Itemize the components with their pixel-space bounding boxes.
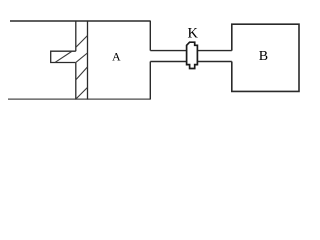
hatch line 3 bbox=[76, 53, 87, 62]
hatch line 5 bbox=[76, 88, 87, 99]
reservoir B box bbox=[232, 24, 299, 91]
hatch line 4 bbox=[76, 67, 88, 80]
hatch line 1 bbox=[76, 36, 88, 48]
svg-text:K: K bbox=[187, 26, 198, 42]
cylinder bottom wall bbox=[8, 98, 150, 100]
svg-text:A: A bbox=[112, 50, 121, 64]
duct top line bbox=[150, 50, 232, 52]
cylinder top wall bbox=[10, 20, 150, 22]
svg-text:B: B bbox=[259, 49, 268, 64]
chamber A right wall upper segment bbox=[149, 21, 151, 51]
piston left edge lower bbox=[75, 63, 77, 100]
valve K symbol bbox=[187, 42, 198, 68]
piston right edge bbox=[87, 21, 89, 100]
piston rod tab outline bbox=[51, 51, 76, 62]
piston left edge upper bbox=[75, 21, 77, 52]
chamber A right wall lower segment bbox=[149, 62, 151, 100]
hatch line 2 rod bbox=[55, 52, 71, 63]
duct bottom line bbox=[150, 61, 232, 63]
